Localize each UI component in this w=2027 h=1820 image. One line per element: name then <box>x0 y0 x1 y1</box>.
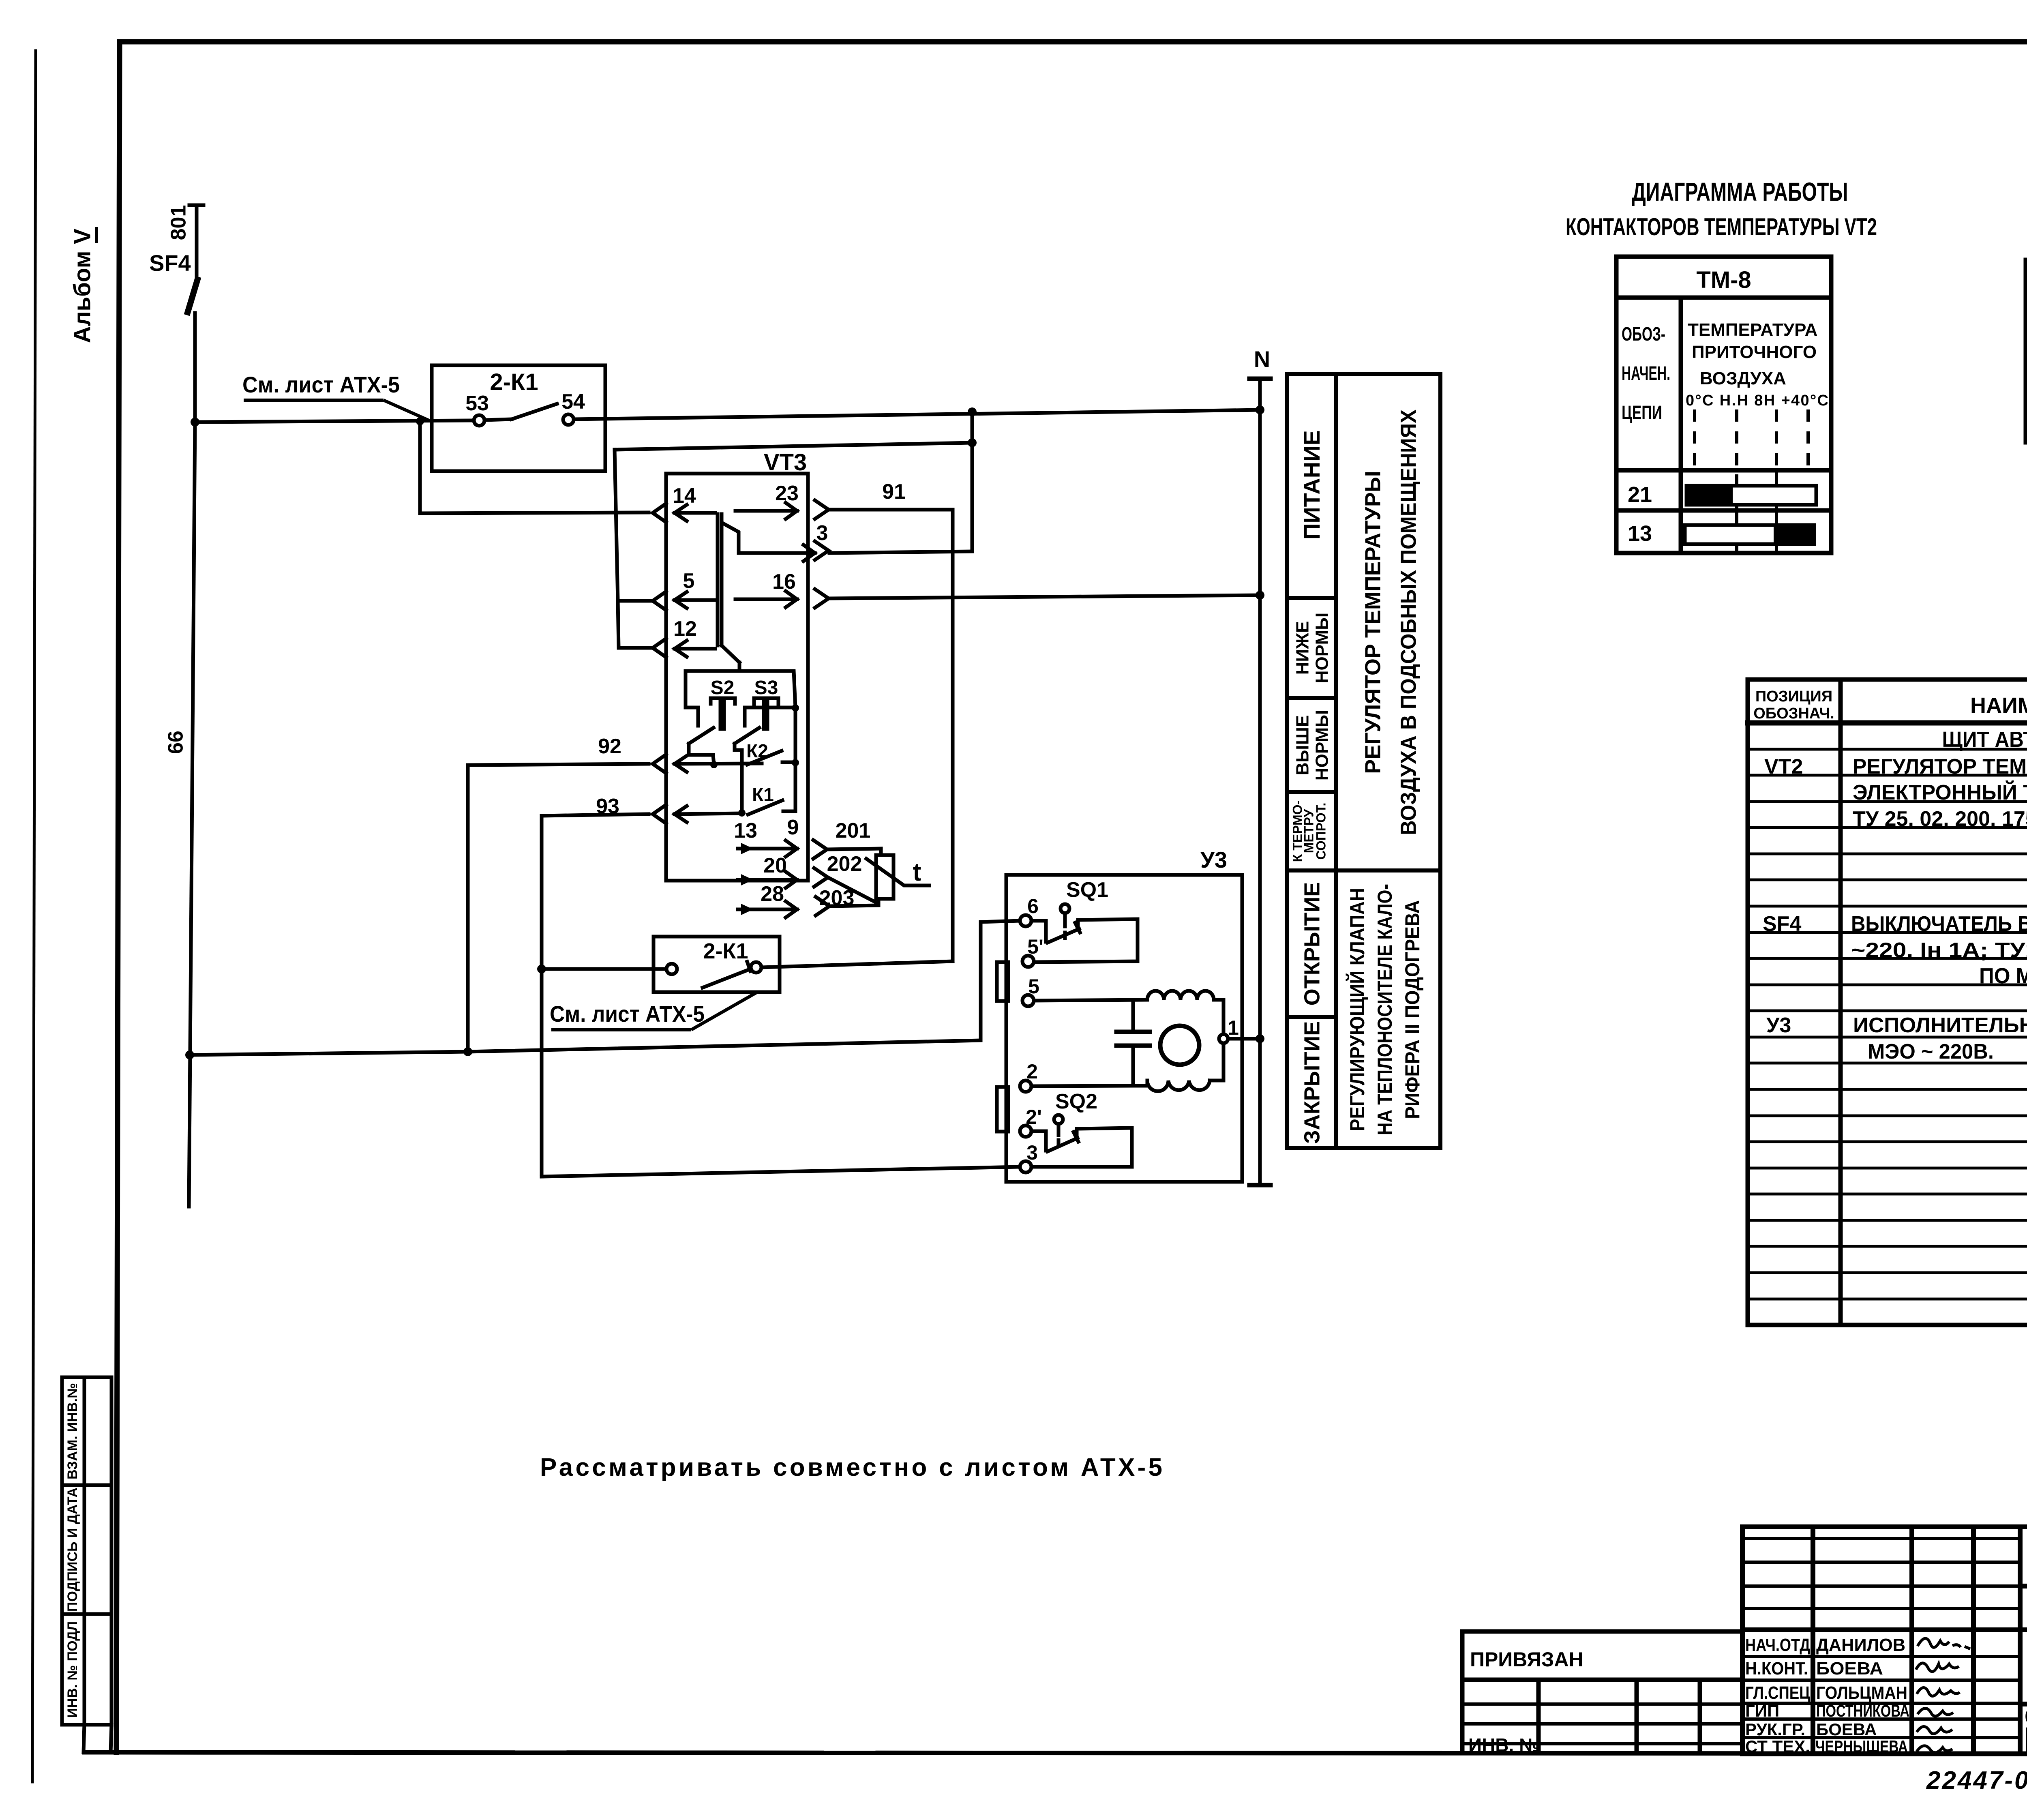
svg-text:ДАНИЛОВ: ДАНИЛОВ <box>1816 1635 1905 1655</box>
frame bottom border <box>84 1752 2027 1754</box>
pin 12 inner arrow <box>675 647 715 651</box>
motor winding lower coil <box>1147 1080 1210 1091</box>
frame left border <box>116 42 120 1752</box>
contact 21 state bar <box>1686 486 1816 505</box>
wire 16 to N bus <box>829 595 1260 598</box>
svg-text:N: N <box>1254 346 1270 372</box>
svg-text:ИНВ. № ПОДЛ: ИНВ. № ПОДЛ <box>65 1621 80 1718</box>
switch SQ1 loop to 5p <box>1034 919 1138 962</box>
svg-text:ПРИТОЧНОГО: ПРИТОЧНОГО <box>1692 342 1817 362</box>
svg-text:ГЛ.СПЕЦ: ГЛ.СПЕЦ <box>1745 1683 1810 1703</box>
svg-text:21: 21 <box>1628 482 1652 507</box>
breaker SF4 top terminal tick (wire 801) <box>189 204 204 207</box>
svg-text:VT2: VT2 <box>1764 755 1803 778</box>
svg-text:92: 92 <box>598 735 621 758</box>
svg-text:ТМ-8: ТМ-8 <box>1696 267 1751 293</box>
pin 3 chevron <box>815 541 829 560</box>
contact circle right <box>751 962 761 973</box>
wire vert 2398 bus1 to pin3 <box>971 412 974 551</box>
svg-text:ОБОЗ-: ОБОЗ- <box>1622 324 1665 345</box>
junction bus1/vert2398 <box>968 407 977 416</box>
motor circle <box>1160 1026 1199 1065</box>
bus2 wire <box>615 443 972 450</box>
svg-text:SQ1: SQ1 <box>1066 878 1108 902</box>
svg-text:ЦЕПИ: ЦЕПИ <box>1622 402 1662 424</box>
svg-text:22447-05 47: 22447-05 47 <box>1926 1766 2027 1794</box>
terminal 6 <box>1020 915 1031 926</box>
wire 201 to thermometer <box>827 849 881 855</box>
junction node1/N <box>1256 1034 1264 1043</box>
svg-text:ЩИТ АВТОМАТИЗАЦИИ.: ЩИТ АВТОМАТИЗАЦИИ. <box>1942 727 2027 752</box>
pin 202 chevron <box>814 868 828 887</box>
svg-text:23: 23 <box>775 482 799 505</box>
svg-text:54: 54 <box>561 390 585 414</box>
svg-text:2-К1: 2-К1 <box>703 939 748 963</box>
svg-text:К2: К2 <box>746 740 768 761</box>
svg-text:ПОСТНИКОВА: ПОСТНИКОВА <box>1816 1701 1909 1720</box>
svg-text:РЕГУЛЯТОР ТЕМПЕРАТУРЫ МИКРО-: РЕГУЛЯТОР ТЕМПЕРАТУРЫ МИКРО- <box>1853 755 2027 778</box>
svg-text:5': 5' <box>1027 935 1043 958</box>
svg-text:ПИТАНИЕ: ПИТАНИЕ <box>1299 430 1324 540</box>
pin 12 chevron <box>653 639 666 657</box>
junction K2/v1962 <box>792 759 799 766</box>
wire 93 <box>542 814 649 816</box>
S3 feed <box>745 707 795 726</box>
svg-text:201: 201 <box>836 819 871 842</box>
junction wire66/long horizontal <box>185 1050 194 1059</box>
svg-text:SF4: SF4 <box>1763 912 1801 936</box>
pin 93 inner arrow <box>675 813 742 814</box>
right side designation table <box>1287 374 1440 1148</box>
svg-text:НОРМЫ: НОРМЫ <box>1312 710 1332 781</box>
S3 output vertical to K1 <box>735 744 742 812</box>
svg-text:НАЧЕН.: НАЧЕН. <box>1622 363 1670 384</box>
SQ1 actuator <box>1061 904 1069 913</box>
S3 blade <box>735 728 759 744</box>
svg-text:14: 14 <box>673 484 696 508</box>
wire 91 <box>829 510 953 961</box>
relay contact 2-K1 lower box <box>654 937 780 992</box>
button S2 symbol <box>711 697 735 700</box>
pin 201 chevron <box>813 840 827 859</box>
svg-text:VT3: VT3 <box>764 449 807 476</box>
svg-text:91: 91 <box>882 480 906 504</box>
contact 54 circle <box>563 414 574 425</box>
svg-text:МЭО ~ 220В.: МЭО ~ 220В. <box>1868 1040 1994 1063</box>
svg-text:НАЧ.ОТД: НАЧ.ОТД <box>1745 1635 1810 1655</box>
svg-text:ГОЛЬЦМАН: ГОЛЬЦМАН <box>1816 1683 1907 1703</box>
pin 23 inner arrow <box>735 509 797 513</box>
svg-text:16: 16 <box>772 570 796 594</box>
vertical to K contacts <box>794 708 797 811</box>
button S3 symbol <box>754 697 778 700</box>
svg-text:801: 801 <box>167 205 191 240</box>
wire coil to capacitor bottom <box>1210 1079 1223 1083</box>
pin 23 chevron <box>815 500 829 519</box>
svg-text:ЧЕРНЫШЕВА: ЧЕРНЫШЕВА <box>1815 1737 1908 1756</box>
svg-text:ГИП: ГИП <box>1745 1701 1779 1720</box>
svg-text:12: 12 <box>673 617 697 641</box>
svg-text:Альбом V: Альбом V <box>69 228 95 343</box>
contact 2-K1 blade <box>485 419 512 420</box>
svg-text:НАИМЕНОВАНИЕ: НАИМЕНОВАНИЕ <box>1970 693 2027 718</box>
svg-text:НИЖЕ: НИЖЕ <box>1293 621 1313 675</box>
bracket wire to pins 5 and 12 <box>615 450 654 601</box>
svg-text:ВЗАМ. ИНВ.№: ВЗАМ. ИНВ.№ <box>65 1383 80 1479</box>
capacitor plates <box>1116 1030 1150 1034</box>
svg-text:См. лист АТХ-5: См. лист АТХ-5 <box>550 1001 705 1027</box>
svg-text:202: 202 <box>827 852 862 876</box>
junction bus1/N <box>1256 405 1264 414</box>
wire SF4 to bus junction <box>193 313 197 422</box>
pin 16 chevron <box>815 589 829 608</box>
N top bar <box>1249 377 1271 381</box>
svg-text:У3: У3 <box>1200 847 1227 872</box>
wire 93 bottom to terminal 3 <box>542 1167 1020 1177</box>
terminal 3 <box>1020 1161 1031 1173</box>
SQ2 actuator <box>1054 1115 1063 1124</box>
link bracket 2-2p <box>997 1087 1008 1132</box>
bus1 wire SF4 to contact 53 <box>195 420 474 422</box>
junction V1 branch <box>416 417 424 425</box>
neutral bus N <box>1258 379 1262 1185</box>
wire 93 vertical drop <box>540 816 544 1177</box>
wire 202 diagonal <box>828 877 876 902</box>
pin 5 inner arrow <box>675 598 715 602</box>
contact 2-K1 lower blade <box>703 969 750 988</box>
svg-text:3: 3 <box>816 521 828 545</box>
link bracket 5p-5 <box>997 962 1008 1001</box>
svg-text:ВЫКЛЮЧАТЕЛЬ ВА14-26-14-20УХЛЧ: ВЫКЛЮЧАТЕЛЬ ВА14-26-14-20УХЛЧ <box>1851 912 2027 936</box>
pin 92 inner arrow <box>675 763 762 764</box>
capacitor bottom lead <box>1131 1046 1135 1086</box>
svg-text:ПОДПИСЬ И ДАТА: ПОДПИСЬ И ДАТА <box>65 1488 80 1612</box>
wire 2-K1 to 91 vertical <box>761 961 953 967</box>
terminal 2p <box>1020 1125 1031 1137</box>
svg-text:ДИАГРАММА РАБОТЫ: ДИАГРАММА РАБОТЫ <box>1632 177 1848 206</box>
contact K1 blade <box>748 800 782 815</box>
svg-text:ТУ 25. 02. 200. 175. 82.: ТУ 25. 02. 200. 175. 82. <box>1853 807 2027 831</box>
internal stem double line <box>716 514 720 645</box>
svg-text:РИФЕРА II ПОДОГРЕВА: РИФЕРА II ПОДОГРЕВА <box>1401 900 1424 1119</box>
svg-text:1: 1 <box>1228 1016 1239 1039</box>
motor winding upper coil <box>1147 991 1214 1000</box>
parts list table <box>1748 680 2027 1325</box>
svg-text:ПОЗИЦИЯ: ПОЗИЦИЯ <box>1755 688 1832 705</box>
svg-text:РУК.ГР.: РУК.ГР. <box>1745 1720 1805 1739</box>
svg-text:66: 66 <box>164 731 188 754</box>
pin 3 inner arrowhead <box>804 545 815 561</box>
wire 93 to 2-K1 <box>542 967 666 971</box>
privyazan table <box>1462 1631 1742 1753</box>
rail right branch <box>739 671 795 707</box>
pin 92 chevron <box>653 755 666 773</box>
svg-text:ТЕМПЕРАТУРА: ТЕМПЕРАТУРА <box>1688 320 1817 340</box>
wire terminal 5 to coil <box>1034 1000 1147 1001</box>
svg-text:~220. Iн 1А; ТУ16.641.004-83: ~220. Iн 1А; ТУ16.641.004-83. <box>1851 939 2027 962</box>
svg-text:ВОЗДУХА В ПОДСОБНЫХ ПОМЕЩЕН: ВОЗДУХА В ПОДСОБНЫХ ПОМЕЩЕНИЯХ <box>1396 409 1421 835</box>
svg-text:2: 2 <box>1026 1060 1038 1083</box>
svg-text:НОРМЫ: НОРМЫ <box>1312 613 1332 684</box>
wire node 1 down to lower coil <box>1222 1043 1226 1080</box>
page binding thin line left <box>32 51 36 1782</box>
svg-text:13: 13 <box>1628 521 1652 546</box>
frame top border <box>120 39 2027 45</box>
contact circle left <box>666 964 677 974</box>
svg-text:203: 203 <box>819 886 855 910</box>
svg-text:ЭЛЕКТРОННЫЙ ТМ8 ~ 220В.: ЭЛЕКТРОННЫЙ ТМ8 ~ 220В. <box>1853 780 2027 804</box>
contact 13 state bar <box>1685 525 1814 544</box>
svg-text:S2: S2 <box>711 677 735 699</box>
N bottom bar <box>1249 1183 1271 1188</box>
junction bus2/vert2398 <box>968 438 977 447</box>
diagram MEO-63 table <box>2026 260 2027 442</box>
svg-text:СОПРОТ.: СОПРОТ. <box>1313 803 1328 860</box>
wire node 1 to N bus <box>1228 1037 1260 1041</box>
svg-text:93: 93 <box>596 795 619 818</box>
svg-text:РЕГУЛИРУЮЩИЙ КЛАПАН: РЕГУЛИРУЮЩИЙ КЛАПАН <box>1346 888 1369 1131</box>
terminal 2 <box>1020 1080 1031 1092</box>
contact 53 circle <box>474 415 484 426</box>
internal rail <box>686 662 739 726</box>
svg-text:2-К1: 2-К1 <box>490 369 538 395</box>
svg-text:БОЕВА: БОЕВА <box>1816 1720 1877 1739</box>
S2 blade <box>689 728 714 744</box>
internal diag to pin3 <box>722 523 815 553</box>
svg-text:См. лист АТХ-5: См. лист АТХ-5 <box>242 372 400 397</box>
pin 28 inner arrow <box>738 908 797 911</box>
title block <box>1742 1527 2027 1754</box>
contact K1 fixed <box>783 810 795 813</box>
pin 5 chevron <box>653 592 666 610</box>
svg-text:ИСПОЛНИТЕЛЬНЫЙ МЕХАНИЗМ: ИСПОЛНИТЕЛЬНЫЙ МЕХАНИЗМ <box>1853 1013 2027 1037</box>
relay contact 2-K1 box <box>432 365 605 471</box>
pin 93 chevron <box>653 805 666 823</box>
svg-text:У3: У3 <box>1766 1014 1791 1037</box>
svg-text:ЗАКРЫТИЕ: ЗАКРЫТИЕ <box>1300 1021 1324 1144</box>
svg-text:ПРИВЯЗАН: ПРИВЯЗАН <box>1470 1648 1583 1671</box>
wire V1 to pin 14 <box>420 421 649 513</box>
svg-text:5: 5 <box>1028 975 1039 998</box>
long wire SF4 to terminal 6 riser <box>190 921 1020 1055</box>
svg-text:НА ТЕПЛОНОСИТЕЛЕ КАЛО-: НА ТЕПЛОНОСИТЕЛЕ КАЛО- <box>1373 884 1396 1135</box>
svg-text:2': 2' <box>1026 1106 1042 1128</box>
wire 92 vertical drop <box>466 765 470 1052</box>
svg-text:НОЙ СИСТЕМОЙ П1К (ОКОНЧАНИЕ): НОЙ СИСТЕМОЙ П1К (ОКОНЧАНИЕ) <box>2025 1734 2027 1757</box>
switch SQ2 blade <box>1048 1138 1078 1151</box>
wire SF4 upper <box>195 205 199 281</box>
pin 14 chevron <box>653 504 666 522</box>
pin 9 inner arrow <box>738 847 797 851</box>
svg-text:S3: S3 <box>754 677 778 699</box>
junction SF4/bus1 <box>191 418 199 427</box>
svg-text:ИНВ. №: ИНВ. № <box>1468 1734 1540 1756</box>
svg-text:РЕГУЛЯТОР ТЕМПЕРАТУРЫ: РЕГУЛЯТОР ТЕМПЕРАТУРЫ <box>1361 471 1385 774</box>
node 1 circle <box>1219 1034 1228 1043</box>
junction 93/2-K1 <box>537 965 546 973</box>
diagram TM-8 table <box>1616 257 1831 553</box>
thermometer strike diagonal <box>866 859 929 885</box>
pin 16 inner arrow <box>735 598 797 601</box>
svg-text:ОБОЗНАЧ.: ОБОЗНАЧ. <box>1753 705 1834 722</box>
wire terminal 2 <box>1031 1086 1133 1086</box>
left stamp strip <box>62 1377 111 1752</box>
wire pin3 out <box>829 551 972 553</box>
terminal 5 <box>1022 995 1034 1006</box>
switch SQ2 loop to 3 <box>1031 1128 1132 1167</box>
wire 92 <box>468 764 649 765</box>
svg-text:СТ ТЕХ.: СТ ТЕХ. <box>1745 1737 1810 1756</box>
svg-text:ВЫШЕ: ВЫШЕ <box>1293 715 1313 775</box>
svg-text:0°С Н.Н 8Н +40°С: 0°С Н.Н 8Н +40°С <box>1686 392 1828 409</box>
svg-text:КОНТАКТОРОВ ТЕМПЕРАТУРЫ VT2: КОНТАКТОРОВ ТЕМПЕРАТУРЫ VT2 <box>1566 213 1877 240</box>
svg-text:3: 3 <box>1026 1141 1038 1164</box>
svg-text:ОТКРЫТИЕ: ОТКРЫТИЕ <box>1300 882 1324 1006</box>
capacitor top lead <box>1131 1000 1135 1032</box>
terminal 5p <box>1022 956 1034 967</box>
svg-text:9: 9 <box>787 816 799 839</box>
signatures scribbles <box>1916 1638 1970 1753</box>
svg-text:t: t <box>913 858 921 886</box>
internal stem bottom diag <box>722 645 739 662</box>
switch SQ1 wire from 6 <box>1031 921 1046 942</box>
bus1 wire 54 to N bus <box>574 410 1260 419</box>
svg-text:5: 5 <box>683 569 695 593</box>
svg-text:БОЕВА: БОЕВА <box>1816 1659 1883 1679</box>
pin 14 inner arrow <box>675 511 715 515</box>
wire 203 <box>829 899 879 906</box>
svg-text:13: 13 <box>734 819 757 842</box>
junction S2/92 <box>710 761 718 768</box>
svg-text:К1: К1 <box>752 784 774 805</box>
S2 output to wire 92 <box>689 744 714 765</box>
svg-text:6: 6 <box>1027 895 1039 918</box>
junction rail/v1962 <box>792 704 799 712</box>
junction K1 pivot <box>738 809 746 817</box>
thermometer resistor body <box>876 855 894 899</box>
svg-text:20: 20 <box>763 854 787 877</box>
pin 203 chevron <box>816 897 829 915</box>
svg-text:Н.КОНТ.: Н.КОНТ. <box>1745 1659 1808 1679</box>
wire 66 vertical <box>189 422 195 1207</box>
contact K2 blade <box>747 751 782 765</box>
svg-text:ПО МЕСТУ: ПО МЕСТУ <box>1979 964 2027 988</box>
regulator VT3 box <box>666 474 808 881</box>
wire coil to node 1 <box>1214 1000 1223 1034</box>
motor drive U3 box <box>1006 875 1242 1182</box>
junction 16/N <box>1256 591 1264 600</box>
switch SQ2 wire from 2p <box>1031 1131 1046 1151</box>
breaker SF4 blade <box>188 280 197 312</box>
pin 20 inner arrow <box>738 878 797 882</box>
svg-text:SF4: SF4 <box>149 250 191 276</box>
contact K2 fixed <box>782 761 795 764</box>
svg-text:28: 28 <box>761 882 784 906</box>
svg-text:ВОЗДУХА: ВОЗДУХА <box>1700 369 1786 388</box>
junction 92/long wire <box>463 1047 472 1056</box>
switch SQ1 blade <box>1048 929 1079 943</box>
svg-text:SQ2: SQ2 <box>1055 1090 1097 1113</box>
svg-text:53: 53 <box>465 392 489 415</box>
